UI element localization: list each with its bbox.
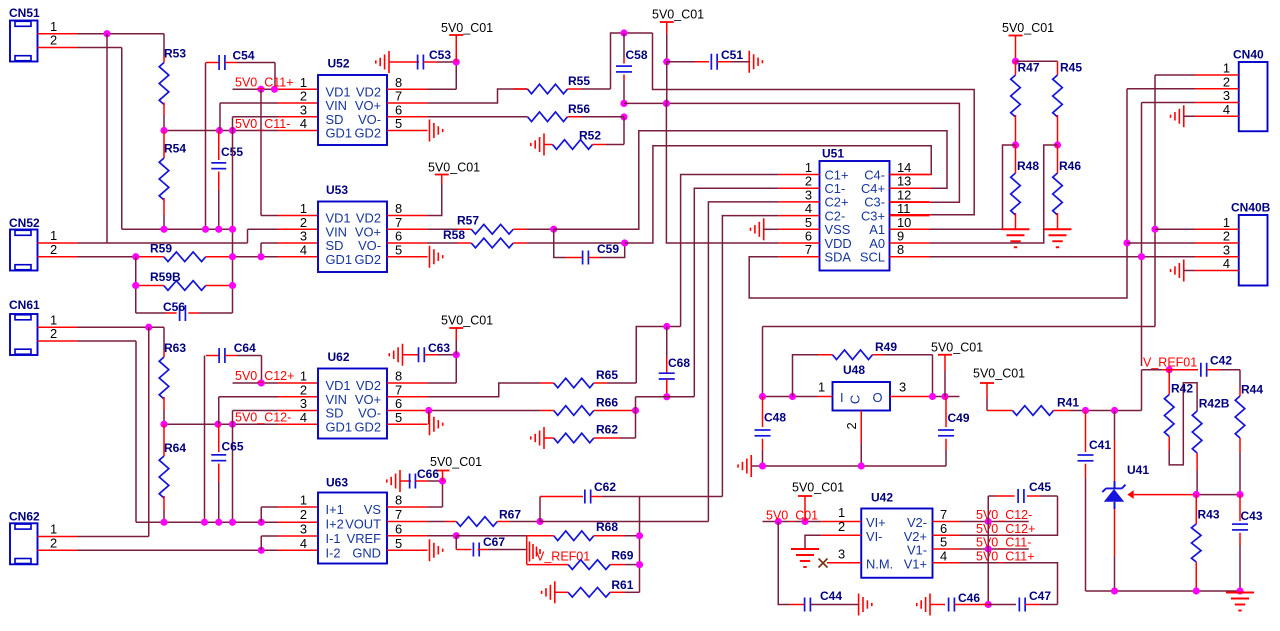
svg-text:2: 2: [50, 326, 57, 341]
svg-text:R59B: R59B: [150, 270, 181, 284]
svg-text:R42: R42: [1171, 382, 1193, 396]
svg-text:R56: R56: [568, 102, 590, 116]
svg-text:2: 2: [1223, 229, 1230, 244]
svg-text:O: O: [873, 390, 883, 405]
svg-text:4: 4: [1223, 102, 1230, 117]
svg-text:R48: R48: [1017, 159, 1039, 173]
svg-text:7: 7: [395, 507, 402, 522]
svg-text:1: 1: [300, 75, 307, 90]
svg-text:2: 2: [50, 33, 57, 48]
svg-text:5V0_C01: 5V0_C01: [428, 161, 480, 175]
svg-text:R55: R55: [568, 74, 590, 88]
svg-text:V1+: V1+: [904, 556, 927, 571]
svg-text:VIN: VIN: [326, 224, 348, 239]
svg-text:5V0_C01: 5V0_C01: [1002, 21, 1054, 35]
svg-text:C65: C65: [222, 440, 244, 454]
svg-text:5V0_C01: 5V0_C01: [430, 455, 482, 469]
svg-text:5: 5: [395, 410, 402, 425]
svg-text:1: 1: [50, 19, 57, 34]
svg-text:CN61: CN61: [9, 298, 40, 312]
svg-text:U63: U63: [326, 476, 348, 490]
svg-text:C62: C62: [594, 480, 616, 494]
svg-text:5V0_C11-: 5V0_C11-: [235, 117, 290, 131]
svg-text:6: 6: [395, 229, 402, 244]
svg-text:R44: R44: [1241, 383, 1263, 397]
svg-text:SD: SD: [326, 112, 344, 127]
svg-text:SD: SD: [326, 238, 344, 253]
svg-text:U52: U52: [328, 57, 350, 71]
svg-text:R67: R67: [499, 508, 521, 522]
svg-text:C48: C48: [764, 411, 786, 425]
svg-text:R53: R53: [164, 47, 186, 61]
svg-text:VREF: VREF: [347, 531, 382, 546]
svg-text:C64: C64: [234, 341, 256, 355]
svg-text:VI-: VI-: [866, 529, 882, 544]
svg-text:8: 8: [395, 75, 402, 90]
svg-text:R69: R69: [611, 549, 633, 563]
svg-text:5V0_C11+: 5V0_C11+: [235, 76, 294, 90]
svg-text:I+2: I+2: [326, 517, 344, 532]
svg-text:VOUT: VOUT: [345, 517, 381, 532]
svg-text:C51: C51: [721, 48, 743, 62]
svg-text:R46: R46: [1059, 159, 1081, 173]
svg-text:5V0_C01: 5V0_C01: [973, 367, 1025, 381]
svg-text:1: 1: [1223, 215, 1230, 230]
svg-text:8: 8: [897, 242, 904, 257]
svg-text:VIN: VIN: [326, 98, 348, 113]
svg-text:CN40B: CN40B: [1231, 201, 1271, 215]
svg-text:4: 4: [300, 410, 307, 425]
svg-text:8: 8: [395, 201, 402, 216]
svg-text:1: 1: [50, 312, 57, 327]
svg-text:R61: R61: [611, 578, 633, 592]
svg-text:7: 7: [395, 89, 402, 104]
svg-text:GD1: GD1: [326, 252, 353, 267]
svg-text:R63: R63: [164, 341, 186, 355]
svg-text:3: 3: [1223, 242, 1230, 257]
svg-text:7: 7: [395, 382, 402, 397]
svg-text:5V0_C01: 5V0_C01: [792, 481, 844, 495]
svg-text:VO+: VO+: [355, 224, 381, 239]
svg-text:U48: U48: [843, 363, 865, 377]
svg-text:C42: C42: [1210, 354, 1232, 368]
svg-text:R42B: R42B: [1199, 397, 1230, 411]
svg-text:1: 1: [50, 522, 57, 537]
svg-text:VD2: VD2: [356, 84, 381, 99]
svg-text:I-1: I-1: [326, 531, 341, 546]
svg-text:GD1: GD1: [326, 126, 353, 141]
svg-text:2: 2: [300, 215, 307, 230]
svg-text:VO-: VO-: [358, 238, 381, 253]
svg-text:R58: R58: [443, 228, 465, 242]
svg-text:N.M.: N.M.: [866, 556, 893, 571]
svg-text:CN52: CN52: [9, 216, 40, 230]
svg-text:VD2: VD2: [356, 211, 381, 226]
svg-text:CN62: CN62: [9, 510, 40, 524]
svg-text:C68: C68: [668, 356, 690, 370]
svg-text:C53: C53: [429, 48, 451, 62]
svg-text:C58: C58: [626, 48, 648, 62]
svg-text:U42: U42: [871, 491, 893, 505]
svg-text:R62: R62: [596, 423, 618, 437]
svg-text:U53: U53: [326, 183, 348, 197]
svg-text:4: 4: [300, 116, 307, 131]
svg-text:VS: VS: [364, 502, 381, 517]
svg-text:1: 1: [838, 505, 845, 520]
svg-text:VD2: VD2: [356, 378, 381, 393]
svg-text:1: 1: [50, 228, 57, 243]
svg-text:3: 3: [300, 396, 307, 411]
svg-text:R66: R66: [596, 396, 618, 410]
svg-text:C: C: [848, 395, 863, 404]
svg-text:2: 2: [50, 535, 57, 550]
svg-text:2: 2: [838, 519, 845, 534]
svg-text:U41: U41: [1127, 463, 1149, 477]
svg-text:6: 6: [940, 521, 947, 536]
svg-text:VO+: VO+: [355, 98, 381, 113]
svg-text:VD1: VD1: [326, 84, 351, 99]
svg-text:U62: U62: [328, 350, 350, 364]
svg-text:VD1: VD1: [326, 211, 351, 226]
svg-text:I: I: [840, 390, 844, 405]
svg-text:5: 5: [940, 535, 947, 550]
svg-text:C54: C54: [233, 49, 255, 63]
svg-text:C47: C47: [1029, 589, 1051, 603]
svg-text:R64: R64: [164, 441, 186, 455]
svg-text:V2-: V2-: [907, 515, 927, 530]
svg-text:5: 5: [395, 242, 402, 257]
svg-text:C59: C59: [597, 242, 619, 256]
svg-text:R59: R59: [150, 242, 172, 256]
svg-text:1: 1: [1223, 61, 1230, 76]
svg-text:R65: R65: [596, 368, 618, 382]
svg-text:5V0_C12+: 5V0_C12+: [235, 369, 294, 383]
svg-text:2: 2: [1223, 74, 1230, 89]
svg-text:3: 3: [300, 102, 307, 117]
svg-text:VO+: VO+: [355, 392, 381, 407]
svg-text:GND: GND: [352, 545, 381, 560]
svg-text:6: 6: [395, 521, 402, 536]
svg-text:7: 7: [395, 215, 402, 230]
svg-text:3: 3: [1223, 88, 1230, 103]
svg-text:V1-: V1-: [907, 543, 927, 558]
svg-text:U51: U51: [822, 147, 844, 161]
svg-text:2: 2: [50, 242, 57, 257]
svg-text:V2+: V2+: [904, 529, 927, 544]
svg-text:4: 4: [300, 242, 307, 257]
svg-text:2: 2: [300, 382, 307, 397]
svg-text:5V0_C01: 5V0_C01: [441, 21, 493, 35]
svg-text:R45: R45: [1060, 61, 1082, 75]
svg-text:3: 3: [300, 521, 307, 536]
svg-text:7: 7: [805, 242, 812, 257]
svg-text:C66: C66: [417, 467, 439, 481]
svg-text:2: 2: [300, 89, 307, 104]
svg-text:7: 7: [940, 507, 947, 522]
svg-text:6: 6: [395, 102, 402, 117]
svg-text:I+1: I+1: [326, 502, 344, 517]
svg-text:R47: R47: [1018, 61, 1040, 75]
svg-text:3: 3: [899, 380, 906, 395]
svg-text:5V0_C12+: 5V0_C12+: [976, 522, 1035, 536]
svg-text:2: 2: [844, 422, 859, 429]
svg-text:C49: C49: [948, 411, 970, 425]
svg-text:SDA: SDA: [825, 250, 852, 265]
svg-text:C67: C67: [483, 535, 505, 549]
svg-text:R49: R49: [875, 340, 897, 354]
svg-text:VD1: VD1: [326, 378, 351, 393]
svg-text:SD: SD: [326, 406, 344, 421]
svg-text:R52: R52: [579, 129, 601, 143]
svg-text:1: 1: [300, 369, 307, 384]
svg-text:C56: C56: [163, 300, 185, 314]
svg-text:VO-: VO-: [358, 112, 381, 127]
svg-text:I-2: I-2: [326, 545, 341, 560]
svg-text:2: 2: [300, 507, 307, 522]
svg-text:5: 5: [395, 536, 402, 551]
svg-text:C43: C43: [1241, 509, 1263, 523]
svg-text:C41: C41: [1089, 438, 1111, 452]
svg-text:5V0_C11+: 5V0_C11+: [976, 549, 1035, 563]
svg-text:5V0_C12-: 5V0_C12-: [235, 411, 291, 425]
svg-text:8: 8: [395, 369, 402, 384]
svg-text:R68: R68: [596, 520, 618, 534]
svg-text:6: 6: [395, 396, 402, 411]
svg-text:C46: C46: [958, 591, 980, 605]
svg-text:5V0_C01: 5V0_C01: [931, 341, 983, 355]
svg-text:GD2: GD2: [354, 126, 381, 141]
svg-text:C63: C63: [428, 341, 450, 355]
svg-text:5V0_C01: 5V0_C01: [766, 509, 818, 523]
svg-text:R41: R41: [1057, 396, 1079, 410]
svg-text:4: 4: [940, 548, 947, 563]
svg-text:VI+: VI+: [866, 515, 886, 530]
svg-text:1: 1: [818, 380, 825, 395]
svg-text:C45: C45: [1029, 480, 1051, 494]
svg-text:GD2: GD2: [354, 419, 381, 434]
svg-text:GD1: GD1: [326, 419, 353, 434]
svg-text:CN40: CN40: [1233, 48, 1264, 62]
svg-text:5V0_C01: 5V0_C01: [441, 314, 493, 328]
svg-text:4: 4: [300, 536, 307, 551]
svg-text:1: 1: [300, 201, 307, 216]
svg-text:C44: C44: [820, 589, 842, 603]
svg-text:R57: R57: [457, 214, 479, 228]
svg-text:R43: R43: [1198, 508, 1220, 522]
svg-text:VO-: VO-: [358, 406, 381, 421]
svg-text:5: 5: [395, 116, 402, 131]
svg-text:5V0_C11-: 5V0_C11-: [976, 536, 1031, 550]
svg-text:3: 3: [300, 229, 307, 244]
svg-text:8: 8: [395, 493, 402, 508]
svg-text:5V0_C12-: 5V0_C12-: [976, 508, 1032, 522]
svg-text:SCL: SCL: [860, 250, 885, 265]
svg-text:CN51: CN51: [9, 6, 40, 20]
svg-text:4: 4: [1223, 256, 1230, 271]
svg-text:R54: R54: [164, 142, 186, 156]
svg-text:5V0_C01: 5V0_C01: [652, 8, 704, 22]
svg-text:GD2: GD2: [354, 252, 381, 267]
svg-text:3: 3: [838, 547, 845, 562]
svg-text:VIN: VIN: [326, 392, 348, 407]
svg-text:1: 1: [300, 493, 307, 508]
